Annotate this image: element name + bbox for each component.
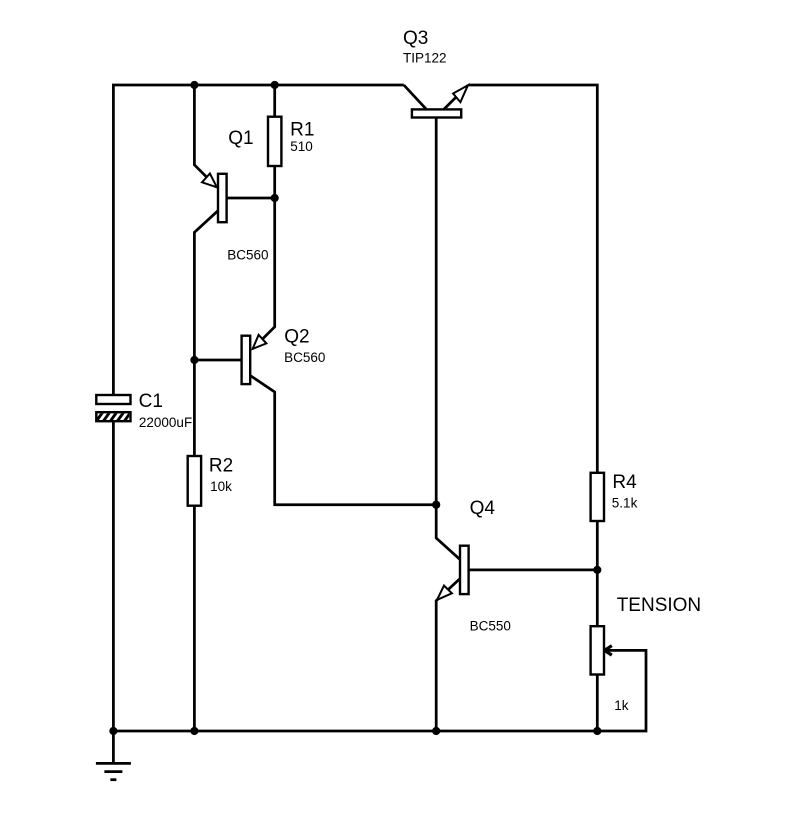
junction: Q2 collector / Q3 base / Q4 collector node D bbox=[432, 501, 440, 509]
wire: R1 top to top rail bbox=[273, 85, 276, 117]
svg-text:10k: 10k bbox=[210, 479, 232, 494]
resistor R2 bbox=[188, 456, 201, 506]
wire: potentiometer wiper return to ground rail bbox=[597, 650, 646, 731]
wire: node D to Q4 collector bbox=[436, 505, 460, 560]
wire: Q1 base to node at R1 bottom bbox=[227, 197, 275, 200]
transistor Q1 base bar bbox=[218, 174, 227, 222]
transistor Q2 base bar bbox=[242, 336, 251, 384]
transistor Q3 emitter arrow (NPN, pointing away up-right) bbox=[453, 85, 468, 102]
junction: ground rail / Q4 emitter bbox=[432, 727, 440, 735]
transistor Q2 emitter arrow (PNP, pointing into bar) bbox=[253, 335, 267, 349]
junction: ground rail / R2 branch bbox=[190, 727, 198, 735]
svg-text:5.1k: 5.1k bbox=[612, 495, 638, 510]
junction: ground rail / potentiometer bottom bbox=[593, 727, 601, 735]
wire: Q1 collector lead down to R2 bbox=[194, 211, 218, 456]
capacitor C1 top plate bbox=[96, 395, 130, 404]
transistor Q4 base bar bbox=[460, 546, 469, 594]
svg-text:BC560: BC560 bbox=[227, 248, 268, 263]
ground: stub below rail bbox=[112, 731, 115, 763]
wire: Q2 base to node B bbox=[194, 359, 241, 362]
svg-text:C1: C1 bbox=[139, 391, 163, 412]
transistor Q3 base bar (horizontal) bbox=[412, 109, 461, 117]
svg-text:BC550: BC550 bbox=[470, 619, 511, 634]
junction: top rail / Q1 emitter bbox=[190, 81, 198, 89]
svg-text:TENSION: TENSION bbox=[617, 595, 701, 616]
potentiometer wiper arrow barbs bbox=[605, 646, 612, 655]
wire: Q4 emitter lead with arrow down to ground rail bbox=[436, 579, 460, 732]
wire: top V+ rail left segment and left rail down to C1 bbox=[113, 85, 403, 395]
wire: Q3 base down to node D bbox=[435, 118, 438, 505]
junction: Q1 collector / Q2 base / R2 top node bbox=[190, 356, 198, 364]
svg-text:510: 510 bbox=[290, 139, 313, 154]
junction: R4 bottom / Q4 base node E bbox=[593, 566, 601, 574]
svg-text:R1: R1 bbox=[290, 120, 314, 141]
resistor R1 bbox=[268, 117, 281, 166]
wire: Q2 collector down and right to node D bbox=[250, 376, 436, 505]
resistor R4 bbox=[591, 473, 604, 521]
wire: R1 bottom through Q1 base node down to Q2 emitter bbox=[253, 166, 275, 349]
wire: top V+ rail right segment down to R4 bbox=[469, 85, 598, 473]
junction: R1 bottom / Q1 base bbox=[271, 194, 279, 202]
svg-text:1k: 1k bbox=[614, 698, 629, 713]
wire: Q3 collector lead from top rail bbox=[404, 85, 427, 109]
potentiometer TENSION body bbox=[591, 626, 604, 674]
svg-text:Q1: Q1 bbox=[228, 128, 253, 149]
wire: R2 bottom to ground rail bbox=[193, 506, 196, 731]
wire: potentiometer bottom to ground rail bbox=[596, 675, 599, 732]
svg-text:22000uF: 22000uF bbox=[139, 415, 192, 430]
ground symbol bbox=[96, 763, 131, 779]
wire: Q3 emitter lead to top rail bbox=[444, 85, 468, 109]
wire: Q4 base to node E at R4 bottom bbox=[469, 569, 598, 572]
transistor Q1 emitter arrow (PNP, pointing into bar) bbox=[202, 174, 217, 188]
svg-text:TIP122: TIP122 bbox=[403, 50, 447, 65]
junction: ground rail / C1 branch bbox=[109, 727, 117, 735]
wire: left rail from C1 bottom to ground rail bbox=[112, 421, 115, 731]
wire: Q1 emitter lead from top rail bbox=[194, 85, 217, 187]
svg-text:R4: R4 bbox=[612, 472, 637, 493]
svg-text:Q2: Q2 bbox=[284, 327, 309, 348]
svg-text:BC560: BC560 bbox=[284, 350, 325, 365]
wire: bottom ground rail bbox=[113, 730, 597, 733]
svg-text:Q3: Q3 bbox=[403, 28, 428, 49]
transistor Q4 emitter arrow (NPN, pointing away down-left) bbox=[437, 586, 452, 600]
capacitor C1 bottom plate (hatched) bbox=[94, 410, 139, 424]
svg-text:R2: R2 bbox=[209, 456, 233, 477]
wire: R4 bottom through node E to potentiometer top bbox=[596, 521, 599, 626]
junction: top rail / R1 top bbox=[271, 81, 279, 89]
svg-text:Q4: Q4 bbox=[470, 498, 496, 519]
